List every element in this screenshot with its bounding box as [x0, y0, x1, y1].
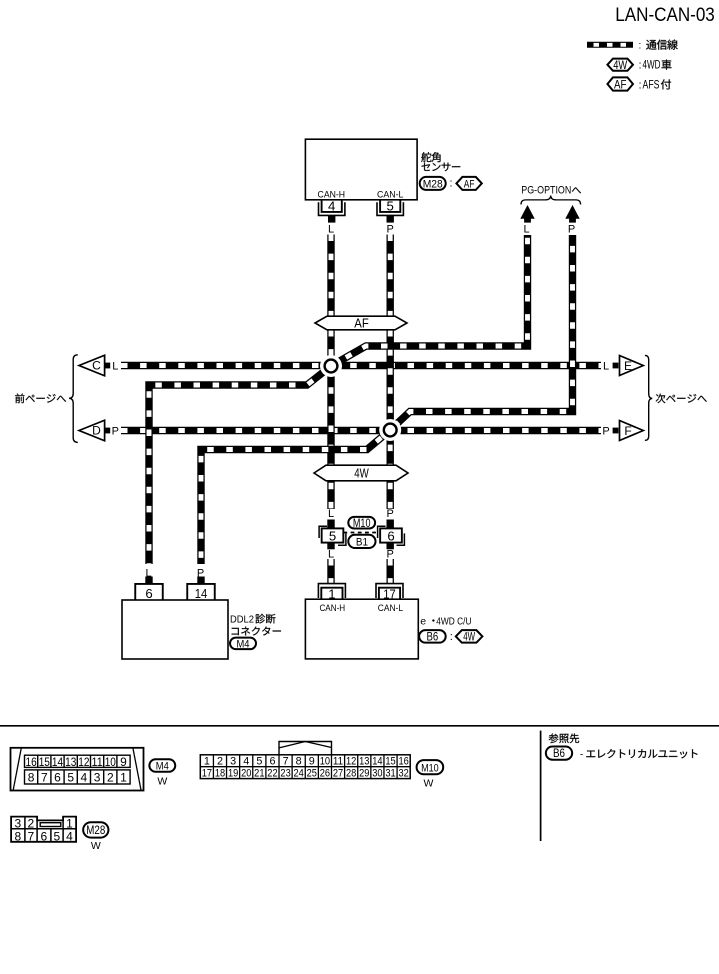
svg-text:4W: 4W: [613, 58, 628, 72]
svg-text:P: P: [602, 425, 609, 437]
svg-text:25: 25: [307, 768, 317, 780]
svg-text::: :: [639, 60, 642, 72]
svg-text:4W: 4W: [463, 632, 475, 644]
svg-text:1: 1: [204, 755, 210, 767]
svg-text:CAN-L: CAN-L: [378, 603, 404, 614]
svg-text:10: 10: [105, 755, 116, 769]
svg-text:L: L: [603, 360, 609, 372]
svg-text:1: 1: [328, 587, 335, 602]
svg-text:6: 6: [54, 771, 61, 785]
svg-text:W: W: [423, 777, 433, 789]
svg-text:AF: AF: [614, 77, 627, 91]
svg-text:B6: B6: [553, 748, 565, 760]
svg-text:L: L: [328, 224, 334, 236]
svg-text:P: P: [197, 567, 204, 579]
svg-text:13: 13: [65, 755, 76, 769]
svg-text:2: 2: [217, 755, 223, 767]
svg-text:18: 18: [215, 768, 225, 780]
svg-text:31: 31: [385, 768, 395, 780]
svg-text:CAN-H: CAN-H: [319, 603, 345, 614]
svg-text:3: 3: [230, 755, 236, 767]
svg-text:L: L: [145, 567, 151, 579]
svg-text:D: D: [92, 424, 101, 438]
svg-text:LAN-CAN-03: LAN-CAN-03: [615, 4, 715, 26]
svg-text:14: 14: [52, 755, 63, 769]
svg-text:M4: M4: [237, 638, 250, 650]
svg-text:8: 8: [14, 830, 21, 844]
svg-text::: :: [449, 178, 452, 190]
svg-text:3: 3: [14, 817, 21, 831]
svg-text:P: P: [387, 224, 394, 236]
svg-text:11: 11: [333, 755, 343, 767]
svg-text:13: 13: [359, 755, 369, 767]
svg-text:1: 1: [120, 771, 127, 785]
svg-text:M10: M10: [353, 517, 371, 530]
svg-text:7: 7: [27, 830, 34, 844]
svg-text:15: 15: [39, 755, 50, 769]
svg-text:AF: AF: [354, 317, 369, 331]
svg-text:L: L: [328, 508, 334, 520]
svg-text:7: 7: [283, 755, 289, 767]
svg-text:15: 15: [385, 755, 395, 767]
svg-text:4: 4: [243, 755, 249, 767]
svg-text:14: 14: [195, 586, 208, 601]
svg-text:17: 17: [383, 587, 396, 602]
svg-text:E: E: [624, 359, 632, 373]
svg-text:19: 19: [228, 768, 238, 780]
svg-text:P: P: [387, 508, 394, 520]
svg-text:4WD C/U: 4WD C/U: [436, 615, 471, 627]
svg-text:8: 8: [296, 755, 302, 767]
svg-text:P: P: [112, 425, 119, 437]
svg-text:2: 2: [107, 771, 114, 785]
svg-text:6: 6: [40, 830, 47, 844]
svg-text:L: L: [328, 548, 334, 560]
svg-text:24: 24: [294, 768, 304, 780]
svg-text:9: 9: [309, 755, 315, 767]
svg-text:W: W: [157, 775, 167, 787]
svg-text:P: P: [387, 548, 394, 560]
svg-text:PG-OPTION: PG-OPTION: [521, 185, 571, 197]
svg-text:12: 12: [346, 755, 356, 767]
svg-text:27: 27: [333, 768, 343, 780]
svg-text:L: L: [112, 360, 118, 372]
svg-text:29: 29: [359, 768, 369, 780]
svg-text:10: 10: [320, 755, 330, 767]
svg-text:2: 2: [27, 817, 34, 831]
svg-text:W: W: [91, 840, 101, 852]
svg-text::: :: [450, 631, 453, 643]
svg-text:11: 11: [92, 755, 103, 769]
svg-text:26: 26: [320, 768, 330, 780]
svg-text:7: 7: [41, 771, 48, 785]
svg-text:AF: AF: [464, 179, 475, 191]
svg-text:8: 8: [28, 771, 35, 785]
svg-text:DDL2: DDL2: [230, 614, 254, 625]
svg-text:AFS: AFS: [643, 77, 660, 91]
svg-text:6: 6: [145, 586, 152, 601]
svg-text::: :: [639, 79, 642, 91]
svg-text:5: 5: [256, 755, 262, 767]
svg-text:4: 4: [66, 830, 73, 844]
svg-text:3: 3: [94, 771, 101, 785]
svg-text:17: 17: [202, 768, 212, 780]
svg-text:9: 9: [120, 755, 127, 769]
svg-text:22: 22: [267, 768, 277, 780]
svg-text:L: L: [523, 224, 529, 236]
svg-text:30: 30: [372, 768, 382, 780]
svg-text:B1: B1: [356, 536, 368, 548]
svg-text:M4: M4: [156, 760, 169, 772]
svg-text:M28: M28: [86, 825, 105, 837]
svg-text:B6: B6: [427, 632, 439, 644]
svg-text:20: 20: [241, 768, 251, 780]
svg-text:e: e: [420, 615, 426, 627]
svg-text:5: 5: [67, 771, 74, 785]
svg-text:23: 23: [280, 768, 290, 780]
svg-text:M10: M10: [421, 762, 439, 774]
svg-text:5: 5: [53, 830, 60, 844]
svg-text:5: 5: [329, 529, 336, 544]
svg-text:28: 28: [346, 768, 356, 780]
svg-text:5: 5: [387, 199, 394, 214]
svg-text:16: 16: [398, 755, 408, 767]
svg-text:12: 12: [78, 755, 89, 769]
svg-text:4: 4: [81, 771, 88, 785]
svg-text::: :: [639, 40, 642, 51]
svg-text:M28: M28: [423, 179, 443, 191]
svg-text:1: 1: [66, 817, 73, 831]
svg-text:14: 14: [372, 755, 382, 767]
svg-text:F: F: [624, 424, 631, 438]
svg-text:21: 21: [254, 768, 264, 780]
svg-text:P: P: [568, 224, 575, 236]
svg-text:4: 4: [328, 199, 335, 214]
svg-text:6: 6: [269, 755, 275, 767]
svg-text:4W: 4W: [354, 467, 369, 481]
svg-text:32: 32: [398, 768, 408, 780]
svg-text:C: C: [92, 359, 101, 373]
svg-text:16: 16: [26, 755, 37, 769]
svg-text:6: 6: [387, 529, 394, 544]
svg-text:4WD: 4WD: [643, 58, 661, 72]
svg-text:-: -: [580, 749, 583, 760]
